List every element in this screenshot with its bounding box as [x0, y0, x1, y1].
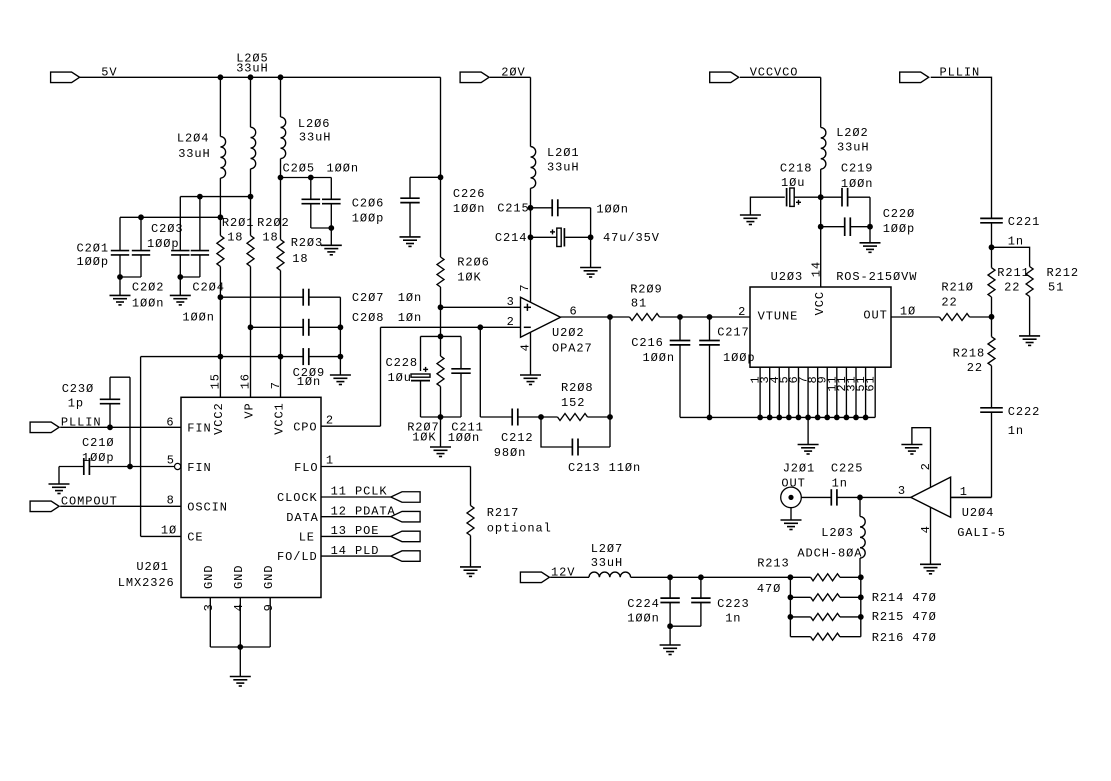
svg-text:OUT: OUT — [863, 309, 887, 323]
svg-text:C228: C228 — [386, 356, 419, 370]
svg-text:C225: C225 — [831, 461, 864, 475]
svg-text:1ØØn: 1ØØn — [448, 431, 481, 445]
svg-text:C218: C218 — [780, 161, 813, 175]
svg-text:GND: GND — [232, 565, 246, 589]
svg-text:1ØØp: 1ØØp — [352, 212, 385, 226]
svg-text:CE: CE — [187, 531, 203, 545]
svg-text:2: 2 — [738, 305, 746, 319]
svg-text:18: 18 — [227, 230, 243, 244]
svg-text:LMX2326: LMX2326 — [118, 576, 175, 590]
svg-text:R2Ø6: R2Ø6 — [457, 256, 490, 270]
svg-text:1Øn: 1Øn — [297, 375, 321, 389]
svg-text:1ØØn: 1ØØn — [841, 177, 874, 191]
svg-text:OSCIN: OSCIN — [187, 501, 228, 515]
svg-text:J2Ø1: J2Ø1 — [783, 461, 816, 475]
svg-text:R2Ø3: R2Ø3 — [291, 236, 324, 250]
svg-text:C21Ø: C21Ø — [82, 436, 115, 450]
svg-text:1Øu: 1Øu — [781, 176, 805, 190]
svg-text:R213: R213 — [757, 556, 790, 570]
svg-text:OPA27: OPA27 — [552, 341, 593, 355]
svg-text:R2Ø9: R2Ø9 — [630, 283, 663, 297]
svg-text:C2Ø1: C2Ø1 — [77, 242, 110, 256]
svg-text:C221: C221 — [1008, 215, 1041, 229]
svg-text:FIN: FIN — [187, 461, 211, 475]
svg-text:1ØØp: 1ØØp — [883, 222, 916, 236]
svg-text:13 POE: 13 POE — [331, 524, 380, 538]
svg-text:2: 2 — [507, 315, 515, 329]
svg-text:1ØØp: 1ØØp — [147, 237, 180, 251]
svg-text:R211: R211 — [997, 266, 1030, 280]
svg-text:1ØØp: 1ØØp — [723, 351, 756, 365]
svg-text:33uH: 33uH — [299, 130, 332, 144]
svg-text:R214 47Ø: R214 47Ø — [872, 591, 937, 605]
svg-text:81: 81 — [631, 296, 647, 310]
svg-text:VTUNE: VTUNE — [758, 309, 799, 323]
svg-text:16: 16 — [238, 373, 252, 389]
svg-text:22: 22 — [1004, 281, 1020, 295]
svg-text:2: 2 — [919, 462, 933, 470]
svg-text:GND: GND — [202, 565, 216, 589]
svg-text:1ØØn: 1ØØn — [643, 351, 676, 365]
svg-text:U2Ø4: U2Ø4 — [962, 506, 995, 520]
svg-text:1Ø: 1Ø — [900, 304, 916, 318]
svg-text:3: 3 — [202, 603, 216, 611]
svg-text:optional: optional — [487, 522, 552, 536]
svg-text:R2Ø2: R2Ø2 — [257, 216, 290, 230]
svg-text:OUT: OUT — [781, 476, 805, 490]
svg-text:33uH: 33uH — [178, 147, 211, 161]
svg-text:U2Ø3: U2Ø3 — [771, 270, 804, 284]
svg-text:8: 8 — [167, 494, 175, 508]
svg-text:12 PDATA: 12 PDATA — [331, 504, 396, 518]
svg-text:C2Ø2: C2Ø2 — [132, 281, 165, 295]
svg-text:7: 7 — [269, 381, 283, 389]
svg-text:ROS-215ØVW: ROS-215ØVW — [836, 270, 917, 284]
svg-text:1Øn: 1Øn — [398, 311, 422, 325]
svg-text:L2Ø1: L2Ø1 — [547, 146, 580, 160]
svg-text:ADCH-8ØA: ADCH-8ØA — [797, 547, 862, 561]
svg-text:1n: 1n — [725, 611, 741, 625]
svg-text:11 PCLK: 11 PCLK — [331, 485, 388, 499]
svg-text:R218: R218 — [953, 346, 986, 360]
svg-text:FLO: FLO — [294, 461, 318, 475]
svg-text:22: 22 — [967, 361, 983, 375]
svg-text:1ØØp: 1ØØp — [77, 255, 110, 269]
svg-text:L2Ø3: L2Ø3 — [821, 526, 854, 540]
svg-text:1ØK: 1ØK — [412, 431, 436, 445]
svg-text:R215 47Ø: R215 47Ø — [872, 610, 937, 624]
svg-text:5: 5 — [167, 454, 175, 468]
svg-text:VCC1: VCC1 — [272, 402, 286, 435]
svg-text:6: 6 — [166, 416, 174, 430]
svg-text:U2Ø2: U2Ø2 — [552, 326, 585, 340]
svg-text:GALI-5: GALI-5 — [957, 526, 1006, 540]
svg-text:LE: LE — [299, 531, 315, 545]
svg-text:7: 7 — [518, 283, 532, 291]
svg-text:152: 152 — [561, 396, 585, 410]
svg-text:C215: C215 — [497, 201, 530, 215]
svg-text:15: 15 — [209, 373, 223, 389]
svg-text:14: 14 — [809, 261, 823, 277]
svg-text:C2Ø4: C2Ø4 — [192, 281, 225, 295]
svg-text:FIN: FIN — [187, 422, 211, 436]
svg-text:2: 2 — [326, 413, 334, 427]
svg-text:VCC2: VCC2 — [212, 402, 226, 435]
svg-text:33uH: 33uH — [837, 141, 870, 155]
svg-text:VP: VP — [242, 402, 256, 418]
svg-text:R212: R212 — [1047, 266, 1080, 280]
svg-text:4: 4 — [919, 525, 933, 533]
svg-text:L2Ø2: L2Ø2 — [836, 126, 869, 140]
svg-text:C22Ø: C22Ø — [883, 207, 916, 221]
svg-text:R217: R217 — [487, 506, 520, 520]
svg-text:C214: C214 — [495, 231, 528, 245]
svg-text:1n: 1n — [1008, 234, 1024, 248]
svg-text:98Øn: 98Øn — [494, 446, 527, 460]
svg-text:51: 51 — [1048, 281, 1064, 295]
svg-text:1Ø: 1Ø — [161, 524, 177, 538]
svg-text:1ØK: 1ØK — [457, 270, 481, 284]
svg-text:R21Ø: R21Ø — [941, 280, 974, 294]
svg-text:L2Ø6: L2Ø6 — [298, 117, 331, 131]
svg-text:9: 9 — [262, 603, 276, 611]
svg-text:GND: GND — [262, 565, 276, 589]
svg-text:CLOCK: CLOCK — [277, 491, 318, 505]
svg-text:L2Ø7: L2Ø7 — [591, 542, 624, 556]
svg-text:C217: C217 — [717, 326, 750, 340]
svg-text:R216 47Ø: R216 47Ø — [872, 631, 937, 645]
svg-text:47Ø: 47Ø — [757, 582, 781, 596]
svg-text:1Øu: 1Øu — [388, 371, 412, 385]
svg-text:C222: C222 — [1008, 405, 1041, 419]
svg-text:1ØØn: 1ØØn — [182, 310, 215, 324]
svg-text:1n: 1n — [1008, 424, 1024, 438]
svg-text:1ØØn: 1ØØn — [327, 162, 360, 176]
svg-text:C2Ø7: C2Ø7 — [352, 291, 385, 305]
svg-text:C216: C216 — [631, 336, 664, 350]
svg-text:1n: 1n — [832, 476, 848, 490]
svg-text:R2Ø8: R2Ø8 — [561, 381, 594, 395]
svg-text:14 PLD: 14 PLD — [331, 544, 380, 558]
svg-text:C23Ø: C23Ø — [62, 382, 94, 396]
svg-text:33uH: 33uH — [547, 160, 580, 174]
svg-text:L2Ø4: L2Ø4 — [177, 132, 210, 146]
svg-text:61: 61 — [864, 375, 878, 391]
svg-text:C219: C219 — [841, 161, 874, 175]
svg-text:6: 6 — [570, 305, 578, 319]
svg-text:C2Ø3: C2Ø3 — [151, 222, 184, 236]
svg-text:VCC: VCC — [813, 291, 827, 315]
svg-text:C213 11Øn: C213 11Øn — [568, 461, 641, 475]
svg-text:47u/35V: 47u/35V — [603, 231, 660, 245]
svg-text:C212: C212 — [501, 431, 534, 445]
svg-text:C224: C224 — [627, 597, 660, 611]
svg-text:FO/LD: FO/LD — [277, 550, 318, 564]
svg-text:3: 3 — [898, 484, 906, 498]
svg-text:R2Ø1: R2Ø1 — [222, 216, 255, 230]
svg-text:DATA: DATA — [286, 511, 319, 525]
svg-text:1: 1 — [326, 454, 334, 468]
svg-text:C226: C226 — [453, 187, 486, 201]
svg-text:C2Ø5: C2Ø5 — [283, 162, 316, 176]
svg-text:1p: 1p — [68, 397, 84, 411]
svg-text:4: 4 — [232, 603, 246, 611]
svg-text:C2Ø8: C2Ø8 — [352, 311, 385, 325]
svg-text:1ØØn: 1ØØn — [627, 611, 660, 625]
svg-text:1Øn: 1Øn — [398, 291, 422, 305]
svg-text:1ØØn: 1ØØn — [132, 296, 165, 310]
svg-text:1ØØn: 1ØØn — [596, 202, 629, 216]
svg-text:18: 18 — [292, 252, 308, 266]
svg-text:CPO: CPO — [293, 420, 317, 434]
svg-text:1ØØn: 1ØØn — [453, 202, 486, 216]
svg-text:3: 3 — [507, 295, 515, 309]
svg-text:33uH: 33uH — [591, 556, 624, 570]
svg-text:22: 22 — [941, 296, 957, 310]
svg-text:U2Ø1: U2Ø1 — [136, 560, 169, 574]
svg-text:C223: C223 — [717, 597, 750, 611]
svg-text:C2Ø6: C2Ø6 — [352, 196, 385, 210]
svg-text:1ØØp: 1ØØp — [82, 451, 115, 465]
svg-text:18: 18 — [262, 230, 278, 244]
svg-text:33uH: 33uH — [236, 62, 269, 76]
svg-text:4: 4 — [519, 343, 533, 351]
